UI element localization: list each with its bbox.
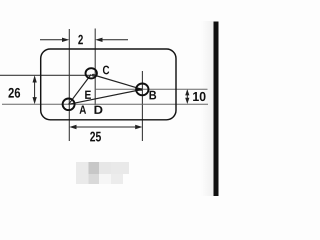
- centerline horizontal through C: [0, 74, 98, 76]
- watermark tile row1 col2: [89, 162, 100, 174]
- dark blob inside C at line junction: [92, 74, 95, 77]
- dim text 10: [193, 92, 205, 101]
- line C to B: [92, 75, 142, 90]
- label C: [103, 66, 109, 75]
- dimension 10 up arrowhead: [185, 89, 189, 95]
- watermark tile row2 col4: [111, 174, 123, 184]
- centerline vertical through B: [141, 71, 143, 141]
- line C to A: [69, 75, 91, 105]
- watermark tile row1 col3: [99, 162, 111, 174]
- dimension 10 down arrowhead: [185, 98, 189, 104]
- centerline vertical through C: [94, 29, 96, 106]
- dimension 2 right arrow shaft: [99, 39, 129, 41]
- watermark tile row1 col4: [111, 162, 129, 174]
- hole circle C: [86, 68, 97, 78]
- dim text 2: [78, 35, 83, 44]
- centerline horizontal through A: [2, 103, 208, 105]
- dimension 26 up arrowhead: [33, 75, 37, 82]
- label B: [149, 91, 156, 100]
- dimension 26 down arrowhead: [33, 97, 37, 104]
- hole circle B: [136, 84, 148, 96]
- faint scan shading left of black bar: [201, 21, 214, 196]
- dim text 26: [8, 88, 20, 98]
- dimension 26 line: [34, 78, 36, 103]
- dimension 10 line: [186, 91, 188, 103]
- plate outline rounded rectangle: [41, 49, 176, 120]
- dimension 25 right arrowhead: [135, 125, 142, 129]
- centerline vertical through A: [68, 29, 70, 141]
- right black bar: [214, 22, 219, 197]
- watermark tile row2 col2: [89, 174, 100, 184]
- watermark tile row1 col1: [76, 162, 89, 184]
- dimension 25 line: [71, 126, 141, 128]
- dimension 2 right arrowhead: [95, 38, 102, 42]
- dim text 25: [90, 132, 101, 142]
- label E: [85, 91, 91, 99]
- watermark tile row2 col3: [99, 174, 111, 184]
- dimension 2 left arrowhead: [62, 38, 69, 42]
- label A: [79, 106, 86, 114]
- centerline horizontal through B: [95, 88, 207, 90]
- dimension 2 left arrow shaft: [40, 39, 66, 41]
- label D: [94, 106, 102, 114]
- dimension 25 left arrowhead: [69, 125, 76, 129]
- dark converging wedge inside B: [137, 88, 143, 90]
- hole circle A: [63, 99, 75, 111]
- line A to B: [69, 89, 143, 104]
